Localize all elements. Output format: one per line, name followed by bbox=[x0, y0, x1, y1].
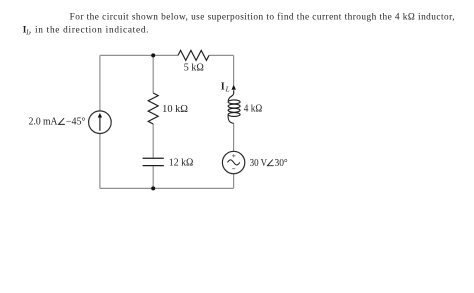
wire right (voltage source to bottom) bbox=[233, 174, 235, 189]
svg-text:−45°: −45° bbox=[66, 117, 86, 128]
svg-text:4 kΩ: 4 kΩ bbox=[244, 104, 263, 115]
wire middle (capacitor to bottom) bbox=[152, 166, 154, 188]
svg-text:2.0 mA: 2.0 mA bbox=[29, 117, 59, 128]
svg-text:, in the direction indicated.: , in the direction indicated. bbox=[29, 26, 149, 36]
voltage source V1 circle bbox=[222, 151, 244, 173]
wire right (top corner down to IL arrow) bbox=[233, 55, 235, 85]
wire right (inductor to voltage source) bbox=[233, 123, 235, 151]
wire bottom bbox=[100, 187, 234, 189]
svg-text:For the circuit shown below, u: For the circuit shown below, use superpo… bbox=[70, 12, 455, 23]
wire middle (top to 10k resistor) bbox=[152, 55, 154, 93]
node junction dot bottom bbox=[151, 186, 155, 190]
angle symbol for voltage source label bbox=[267, 160, 273, 166]
current source arrow bbox=[98, 113, 102, 131]
wire top (right segment) bbox=[209, 54, 234, 56]
current source I1 circle bbox=[89, 111, 112, 134]
svg-text:5 kΩ: 5 kΩ bbox=[184, 63, 204, 74]
IL direction arrow (up) bbox=[232, 85, 236, 90]
svg-text:I: I bbox=[221, 82, 225, 93]
voltage source minus mark bbox=[232, 168, 235, 170]
wire left (above current source) bbox=[99, 55, 101, 111]
resistor 10k (middle, vertical zigzag) bbox=[148, 93, 158, 124]
resistor 5k (top, horizontal zigzag) bbox=[178, 50, 209, 60]
svg-text:30 V: 30 V bbox=[250, 158, 268, 169]
svg-text:12 kΩ: 12 kΩ bbox=[169, 157, 194, 168]
wire left (below current source) bbox=[99, 134, 101, 189]
svg-text:L: L bbox=[225, 86, 230, 94]
voltage source plus mark bbox=[232, 154, 235, 157]
svg-text:10 kΩ: 10 kΩ bbox=[162, 104, 188, 115]
angle symbol for current source label bbox=[59, 118, 65, 124]
wire top (left segment) bbox=[100, 54, 178, 56]
wire middle (10k resistor to capacitor) bbox=[152, 124, 154, 158]
capacitor 12k plates bbox=[143, 158, 164, 165]
inductor 4k coil bbox=[228, 90, 240, 123]
svg-text:30°: 30° bbox=[275, 158, 288, 169]
voltage source sine wave bbox=[227, 160, 239, 165]
node junction dot top bbox=[151, 53, 155, 57]
